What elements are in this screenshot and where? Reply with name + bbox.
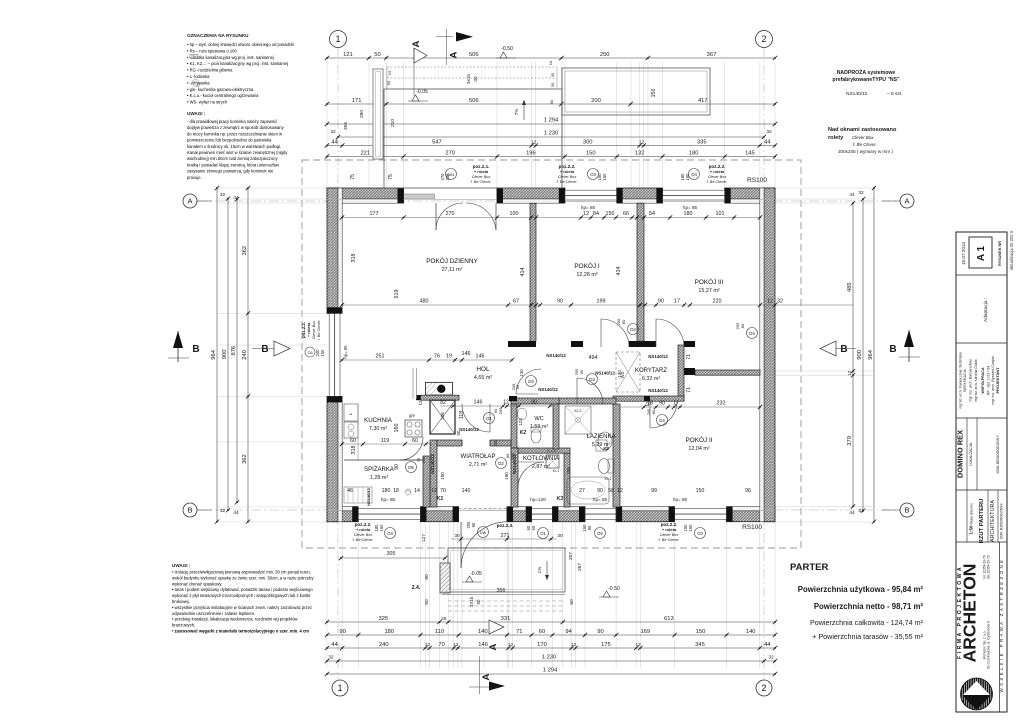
window O3 bottom (150) [675, 509, 727, 520]
svg-text:150: 150 [586, 151, 596, 157]
svg-text:10: 10 [548, 60, 553, 65]
svg-text:kanałem o średnicy ok. 15cm w: kanałem o średnicy ok. 15cm w warstwach … [187, 144, 281, 149]
svg-text:Clever Box: Clever Box [354, 533, 374, 537]
door D2 KOTLOWNIA [518, 461, 544, 463]
svg-text:32: 32 [858, 190, 864, 196]
svg-text:K.c.o.: K.c.o. [547, 449, 556, 453]
svg-text:80: 80 [651, 409, 656, 414]
wall exterior bottom segment 2 [421, 511, 459, 522]
svg-text:160: 160 [394, 424, 400, 433]
svg-text:hp= 85: hp= 85 [683, 205, 698, 210]
svg-text:-0.05: -0.05 [470, 571, 482, 577]
svg-text:345: 345 [695, 642, 705, 648]
svg-text:90: 90 [471, 522, 476, 527]
svg-text:1:50: 1:50 [969, 525, 974, 535]
svg-text:240: 240 [242, 350, 248, 360]
svg-text:205: 205 [510, 452, 515, 459]
svg-text:do mocy kominka np: przez rozs: do mocy kominka np: przez rozszczelniani… [187, 131, 282, 136]
svg-text:fax 12354-29-70: fax 12354-29-70 [987, 555, 991, 578]
svg-text:1 230: 1 230 [544, 131, 559, 137]
svg-text:O1: O1 [540, 531, 546, 536]
kitchen-hol counter partition [412, 368, 414, 399]
svg-text:mgr inż. arch. Joanna Litwa- Ś: mgr inż. arch. Joanna Litwa- Śledzińska [958, 352, 963, 409]
right dim chain in [852, 203, 854, 506]
wall WC north [511, 398, 559, 404]
svg-text:WC: WC [534, 416, 543, 422]
svg-text:2.4.: 2.4. [412, 585, 421, 591]
svg-text:12: 12 [425, 642, 431, 648]
big dashed roof outline [302, 160, 801, 548]
svg-text:• L -lodówka: • L -lodówka [187, 74, 210, 79]
wall SPIZARKA east [423, 456, 430, 507]
svg-text:123: 123 [518, 418, 523, 426]
svg-text:150: 150 [320, 349, 325, 357]
svg-text:Clever Box: Clever Box [312, 321, 316, 340]
svg-text:odpowiednie uszczelnienie i za: odpowiednie uszczelnienie i zalanie lepi… [172, 611, 255, 616]
svg-text:UWAGI :: UWAGI : [187, 111, 206, 116]
bottom dim chain 1230 [327, 660, 775, 662]
svg-text:58: 58 [608, 488, 614, 494]
svg-text:60: 60 [539, 629, 545, 635]
svg-text:D1: D1 [486, 416, 492, 421]
svg-text:547: 547 [432, 140, 442, 146]
svg-text:Clever Box: Clever Box [472, 175, 492, 179]
top dim chain 1230 [338, 136, 764, 138]
svg-text:+ roleta: + roleta [356, 527, 371, 532]
svg-text:hp= 85: hp= 85 [581, 205, 596, 210]
window O3 top (150) [565, 190, 617, 201]
svg-text:175: 175 [601, 642, 611, 648]
door DW entrance bottom, opens outside [460, 522, 462, 568]
svg-text:964: 964 [868, 349, 874, 359]
svg-text:2,87 m²: 2,87 m² [532, 464, 550, 470]
svg-text:140: 140 [746, 629, 756, 635]
dim 305 porch [341, 557, 445, 559]
level marker -0.50 top [500, 52, 507, 58]
legend zmywarka spiral symbol [192, 80, 200, 88]
svg-text:19: 19 [446, 354, 452, 360]
door D3 LAZIENKA [576, 378, 578, 404]
svg-text:RS100: RS100 [747, 177, 767, 184]
svg-text:71: 71 [686, 387, 692, 393]
svg-text:613: 613 [664, 616, 674, 622]
axis line 2 [763, 47, 765, 679]
svg-text:240: 240 [379, 642, 389, 648]
svg-text:60: 60 [531, 525, 536, 530]
svg-text:54: 54 [649, 211, 655, 217]
svg-text:poz.2.3.: poz.2.3. [497, 523, 514, 528]
svg-text:76: 76 [434, 354, 440, 360]
svg-text:106: 106 [440, 412, 445, 420]
svg-text:4,65 m²: 4,65 m² [474, 375, 492, 381]
svg-text:60: 60 [569, 599, 575, 605]
svg-text:30: 30 [557, 533, 563, 539]
svg-text:hp= 85: hp= 85 [343, 345, 348, 359]
svg-text:NS140/12: NS140/12 [366, 487, 371, 506]
svg-text:K4: K4 [603, 446, 609, 451]
svg-text:205: 205 [735, 322, 740, 329]
svg-text:POKÓJ II: POKÓJ II [686, 435, 713, 444]
svg-text:POKÓJ DZIENNY: POKÓJ DZIENNY [426, 256, 478, 265]
svg-text:PARTER: PARTER [790, 562, 828, 573]
svg-text:964: 964 [211, 349, 217, 359]
lazienka shower [565, 406, 591, 434]
svg-text:221: 221 [360, 151, 370, 157]
svg-text:130: 130 [519, 369, 524, 377]
svg-text:• hp – wys. dolnej krawędzi ot: • hp – wys. dolnej krawędzi otworu okien… [187, 42, 294, 47]
svg-text:207: 207 [568, 552, 574, 560]
svg-text:30: 30 [454, 533, 460, 539]
svg-text:rolety: rolety [828, 135, 844, 141]
svg-text:ARCHETON: ARCHETON [960, 564, 980, 663]
terrace north-east (top right) [562, 68, 710, 115]
svg-text:A: A [187, 197, 192, 206]
svg-text:150: 150 [696, 629, 706, 635]
svg-text:99: 99 [651, 488, 657, 494]
svg-text:80: 80 [579, 369, 584, 374]
svg-text:• przebieg instalacji, lokaliz: • przebieg instalacji, lokalizacja wodom… [172, 617, 298, 622]
svg-text:30: 30 [473, 76, 478, 82]
wall stub black right of korytarz door D4 [684, 341, 695, 347]
svg-text:101: 101 [716, 211, 725, 217]
wall KOTLOWNIA east / LAZIENKA west [564, 453, 570, 507]
svg-text:Clever Box: Clever Box [558, 175, 578, 179]
svg-text:• g/e- kuchenka gazowo-elektry: • g/e- kuchenka gazowo-elektryczna [187, 87, 254, 92]
axis circle 2 bottom [756, 680, 772, 696]
svg-text:A: A [481, 673, 492, 680]
svg-text:• WS- wyłaz na strych: • WS- wyłaz na strych [187, 100, 228, 105]
svg-text:44: 44 [233, 510, 239, 516]
svg-text:1,28 m²: 1,28 m² [370, 475, 388, 481]
svg-text:- dla prawidłowej pracy komink: - dla prawidłowej pracy kominka należy z… [187, 119, 277, 124]
svg-text:130: 130 [617, 370, 622, 378]
svg-text:hp=120: hp=120 [530, 497, 546, 502]
svg-text:121: 121 [343, 52, 353, 58]
svg-text:146: 146 [476, 354, 485, 360]
svg-text:DOM JEDNORODZINNY:: DOM JEDNORODZINNY: [1000, 503, 1004, 540]
svg-text:K3: K3 [557, 496, 564, 502]
svg-text:71: 71 [516, 629, 522, 635]
svg-text:NS140/12: NS140/12 [430, 454, 435, 474]
wall cap kitchen opening [416, 395, 421, 400]
axis circle 1 top [330, 31, 347, 48]
terrace north (top) [384, 89, 562, 188]
svg-text:KI-2: KI-2 [575, 409, 582, 413]
WS wylaz na strych dashed box [616, 352, 640, 392]
svg-text:519: 519 [394, 290, 400, 299]
svg-text:200: 200 [591, 98, 601, 104]
svg-text:UWAGI :: UWAGI : [172, 563, 191, 568]
svg-text:Powierzchnia całkowita - 124,: Powierzchnia całkowita - 124,74 m² [810, 618, 924, 627]
svg-text:44: 44 [849, 510, 855, 516]
wall WIATROLAP north [437, 440, 511, 446]
dim 271 bottom [451, 538, 557, 540]
wall V2 between POKOJ I and POKOJ III [637, 203, 644, 341]
svg-text:1%: 1% [537, 567, 542, 574]
svg-text:f. Be Clever.: f. Be Clever. [557, 180, 578, 184]
svg-text:146: 146 [462, 351, 471, 357]
svg-text:150: 150 [651, 89, 657, 98]
svg-text:150: 150 [696, 488, 705, 494]
svg-text:15,27 m²: 15,27 m² [698, 288, 719, 294]
svg-text:7%: 7% [514, 109, 519, 116]
svg-text:RZUT PARTERU: RZUT PARTERU [979, 499, 985, 544]
wall SPIZARKA north (light partition) [344, 459, 423, 461]
svg-text:12: 12 [453, 642, 459, 648]
svg-text:90: 90 [597, 488, 603, 494]
svg-text:325: 325 [378, 616, 388, 622]
svg-text:7,30 m²: 7,30 m² [369, 426, 387, 432]
svg-text:brukowej.: brukowej. [172, 599, 190, 604]
svg-text:WSPÓŁPRACA: WSPÓŁPRACA [980, 367, 985, 393]
door label D3 lazienka [587, 374, 598, 385]
wall exterior top segment 4 [725, 188, 775, 199]
svg-text:D4: D4 [659, 418, 665, 423]
svg-text:aktualizacja 05.202 Ir.: aktualizacja 05.202 Ir. [1009, 230, 1014, 271]
svg-text:A: A [411, 40, 422, 47]
svg-text:150: 150 [379, 524, 384, 532]
svg-text:180: 180 [382, 488, 391, 494]
door D4 POKOJ II from korytarz [649, 401, 651, 428]
svg-text:12: 12 [583, 211, 589, 217]
svg-text:A: A [488, 643, 499, 650]
top dim chain row2 [327, 103, 775, 105]
wall WC west upper [511, 404, 517, 448]
svg-text:32: 32 [766, 129, 772, 135]
svg-text:12: 12 [531, 140, 537, 146]
slope arrow 7% top [523, 100, 525, 120]
svg-text:1: 1 [337, 683, 342, 693]
svg-text:A: A [449, 51, 460, 58]
svg-text:196: 196 [526, 151, 536, 157]
svg-text:-0.05: -0.05 [416, 89, 428, 95]
svg-text:HOL: HOL [476, 366, 490, 373]
wall exterior top segment 1 [327, 188, 404, 199]
section marker A bottom [489, 682, 505, 691]
svg-text:Powierzchnia użytkowa - 95,84: Powierzchnia użytkowa - 95,84 m² [798, 585, 924, 594]
interior dim row y360 hol [342, 359, 512, 361]
svg-text:414: 414 [616, 267, 622, 276]
svg-text:140: 140 [462, 488, 471, 494]
wall exterior left segment 1 [327, 188, 338, 313]
svg-text:Skala rysunku: Skala rysunku [970, 503, 974, 524]
door label D4 pokoj I [628, 324, 639, 335]
svg-text:30: 30 [550, 82, 555, 87]
wall exterior right full [764, 188, 775, 522]
level marker -0.50 bottom [603, 591, 610, 597]
interior dim row y215 [342, 217, 760, 219]
svg-text:75: 75 [350, 174, 356, 180]
svg-text:D4: D4 [749, 331, 755, 336]
svg-text:• K.c.o.- kocioł centralnego o: • K.c.o.- kocioł centralnego ogrzewania [187, 93, 259, 98]
svg-text:251: 251 [376, 354, 385, 360]
svg-text:60: 60 [526, 525, 531, 530]
svg-text:RYSUNEK NR: RYSUNEK NR [998, 241, 1002, 266]
window O1 bottom (60) [532, 509, 553, 520]
svg-text:208: 208 [566, 467, 571, 475]
bottom dim chain 1294 [327, 673, 775, 675]
svg-text:DOMINO REX: DOMINO REX [956, 430, 965, 478]
svg-text:RS100: RS100 [742, 524, 762, 531]
svg-text:50: 50 [456, 430, 461, 435]
svg-text:267: 267 [577, 563, 583, 571]
svg-text:C6: C6 [307, 350, 313, 355]
svg-text:900: 900 [857, 350, 863, 360]
svg-text:205: 205 [646, 408, 651, 415]
svg-text:35: 35 [493, 440, 498, 446]
axis circle B right bottom [900, 503, 914, 517]
svg-text:2: 2 [761, 34, 766, 44]
svg-text:12: 12 [639, 140, 645, 146]
DW door label bottom [478, 527, 489, 538]
door D3 HOL-korytarz area [516, 393, 538, 395]
svg-text:876: 876 [231, 346, 237, 356]
door D4 POKOJ I [600, 319, 602, 347]
svg-text:12: 12 [636, 642, 642, 648]
svg-text:1 230: 1 230 [542, 655, 557, 661]
svg-text:32: 32 [330, 129, 336, 135]
svg-text:– 8 szt.: – 8 szt. [887, 91, 902, 97]
svg-text:205: 205 [574, 368, 579, 375]
svg-text:32: 32 [858, 508, 864, 514]
svg-text:D2: D2 [498, 461, 504, 466]
kitchen fridge L [344, 404, 358, 421]
wall POKOJ II west / LAZIENKA east [613, 404, 620, 507]
chimney block with X hatch [430, 400, 455, 434]
svg-text:90: 90 [531, 400, 537, 406]
svg-text:hp= 85: hp= 85 [381, 497, 396, 502]
svg-text:O3: O3 [590, 172, 596, 177]
svg-text:127: 127 [421, 534, 427, 542]
drain spiral symbol near K1 [405, 489, 411, 495]
svg-text:12: 12 [508, 642, 514, 648]
svg-text:32: 32 [220, 192, 226, 198]
svg-text:mgr inż. arch. Karolina Ćwikła: mgr inż. arch. Karolina Ćwikła [973, 359, 978, 401]
svg-text:O4: O4 [387, 531, 393, 536]
bottom dim chain row1 [327, 621, 775, 623]
kitchen counter line [357, 404, 359, 460]
svg-text:g/e: g/e [409, 413, 415, 418]
lazienka washbasin [598, 432, 612, 450]
svg-text:NS140/12: NS140/12 [648, 354, 668, 359]
svg-text:200x245 ( wymiary w mm ): 200x245 ( wymiary w mm ) [838, 149, 893, 154]
svg-text:205: 205 [421, 456, 426, 463]
svg-text:145: 145 [745, 151, 755, 157]
opening in WIATROLAP north wall [462, 439, 490, 446]
svg-text:150: 150 [582, 524, 587, 532]
svg-text:190: 190 [440, 472, 445, 480]
kitchen stove g/e [405, 420, 422, 437]
svg-text:80: 80 [621, 319, 626, 324]
axis line A [197, 200, 900, 202]
door D1 HOL-WIATROLAP [489, 404, 491, 432]
svg-text:82: 82 [440, 400, 446, 406]
svg-text:f. Be Clever.: f. Be Clever. [707, 180, 728, 184]
svg-text:80: 80 [424, 574, 430, 580]
wall stub black at V2 bottom [637, 341, 656, 347]
svg-text:Adaptacja :: Adaptacja : [983, 298, 989, 322]
svg-text:12: 12 [645, 401, 650, 406]
svg-text:• RG -rozdzielnia główna: • RG -rozdzielnia główna [187, 68, 233, 73]
svg-text:50: 50 [374, 52, 380, 58]
svg-text:44: 44 [331, 642, 338, 648]
svg-text:+ roleta: + roleta [662, 527, 677, 532]
svg-text:POKÓJ I: POKÓJ I [574, 261, 599, 270]
svg-text:1 294: 1 294 [543, 668, 558, 674]
wall exterior bottom segment 1 [327, 511, 358, 522]
svg-text:27: 27 [579, 488, 585, 494]
washing machine K4 [596, 440, 607, 451]
wall stub POKOJ I south east of door [629, 341, 637, 347]
svg-text:150: 150 [688, 524, 693, 532]
svg-text:318: 318 [351, 254, 357, 263]
svg-text:494: 494 [589, 355, 598, 361]
svg-text:O3: O3 [697, 531, 703, 536]
svg-text:NS140/12: NS140/12 [538, 387, 558, 392]
svg-text:150: 150 [602, 173, 607, 181]
svg-text:220: 220 [713, 299, 722, 305]
svg-text:60: 60 [424, 599, 430, 605]
title: DOMINO REX section [966, 418, 968, 490]
svg-text:wschodniej) min.50cm nad ziemi: wschodniej) min.50cm nad ziemią zabezpie… [187, 156, 279, 161]
right dim chain 900 [862, 199, 864, 511]
svg-text:270: 270 [445, 151, 455, 157]
svg-text:zasysanie zimnego powietrza, g: zasysanie zimnego powietrza, gdy kominek… [187, 169, 274, 174]
svg-text:12: 12 [571, 642, 577, 648]
top dim chain row6 [327, 156, 775, 158]
legend grate symbol [190, 55, 198, 59]
svg-text:27,11 m²: 27,11 m² [442, 267, 463, 273]
top dim chain 1294 [327, 123, 775, 125]
svg-text:12: 12 [767, 299, 773, 305]
svg-text:NS140/12: NS140/12 [546, 353, 566, 358]
svg-text:75: 75 [388, 174, 394, 180]
bottom dim chain row2 [327, 634, 775, 636]
kitchen sink [344, 422, 358, 438]
svg-text:6,32 m²: 6,32 m² [642, 376, 660, 382]
svg-text:140: 140 [478, 629, 488, 635]
svg-text:-0.50: -0.50 [608, 586, 620, 592]
svg-text:• wszystkie przejścia instalac: • wszystkie przejścia instalacyjne w ści… [172, 605, 312, 610]
svg-text:KI-1: KI-1 [605, 477, 612, 481]
svg-text:SPIŻARKA: SPIŻARKA [364, 466, 394, 473]
svg-text:f. Be Clever.: f. Be Clever. [853, 142, 877, 147]
svg-text:17: 17 [673, 401, 679, 407]
svg-text:100: 100 [510, 211, 519, 217]
door OB1 double doors top [435, 203, 437, 230]
svg-text:KOTŁOWNIA: KOTŁOWNIA [523, 456, 559, 462]
svg-text:NADPROŻA systemowe: NADPROŻA systemowe [837, 69, 896, 76]
left dim chain 900 [227, 199, 229, 511]
svg-text:17: 17 [674, 299, 680, 305]
svg-text:170: 170 [537, 642, 547, 648]
svg-text:ARCHITEKTURA: ARCHITEKTURA [990, 500, 996, 542]
door label D2 [496, 458, 507, 469]
svg-text:417: 417 [698, 98, 708, 104]
section marker A top: open triangle [414, 48, 427, 63]
svg-text:44: 44 [233, 195, 239, 201]
svg-text:250: 250 [600, 52, 610, 58]
svg-text:235: 235 [445, 173, 450, 181]
svg-text:NS140/12: NS140/12 [648, 388, 668, 393]
svg-text:3X15: 3X15 [469, 596, 474, 607]
wall stub POKOJ I south west of door [571, 341, 583, 347]
svg-text:B: B [904, 506, 909, 515]
svg-text:Clever Box: Clever Box [708, 175, 728, 179]
svg-text:Powierzchnia netto - 98,71 m: Powierzchnia netto - 98,71 m² [814, 602, 924, 611]
wall WC east [553, 404, 559, 449]
svg-text:2,71 m²: 2,71 m² [469, 462, 487, 468]
